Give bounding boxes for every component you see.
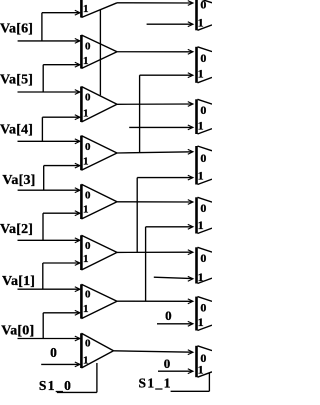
wire Va[2] branch to mux above "1" input xyxy=(43,212,80,214)
wire Va[1] branch to mux above "1" input xyxy=(43,262,80,264)
arrowhead Va[5] into mux above 1 input xyxy=(75,62,80,67)
mux U12 (right column 2:1 mux) xyxy=(197,146,213,185)
wire to U9 "1" input xyxy=(147,23,193,25)
arrowhead Va[2] into left mux 0 input xyxy=(75,238,80,243)
svg-text:S1_1: S1_1 xyxy=(139,376,172,391)
wire output of U4 to U12 "0" input xyxy=(117,152,193,153)
wire constant 0 to U15 "1" input xyxy=(157,323,193,325)
arrowhead into U14 0 input xyxy=(188,250,193,255)
svg-text:Va[2]: Va[2] xyxy=(0,222,33,237)
arrowhead into U9 0 input xyxy=(188,1,193,6)
svg-text:0: 0 xyxy=(85,289,91,301)
mux U4 (left column 2:1 mux) xyxy=(81,136,117,171)
wire Va[3] vertical branch up xyxy=(43,166,45,191)
wire Va[5] vertical branch up xyxy=(42,65,44,92)
wire output of U1 to U9 "0" input xyxy=(117,2,193,4)
wire Va[1] vertical branch up xyxy=(42,263,44,289)
svg-text:0: 0 xyxy=(200,51,206,65)
wire Va[1] horizontal to mux "0" input xyxy=(18,288,80,290)
arrowhead into U11 1 input xyxy=(188,125,193,130)
svg-text:1: 1 xyxy=(83,355,89,367)
svg-text:Va[0]: Va[0] xyxy=(1,323,34,338)
wire S1_0 horizontal xyxy=(57,391,97,393)
wire Va[4] branch to mux above "1" input xyxy=(42,116,79,118)
arrowhead into U15 1 input xyxy=(188,321,193,326)
wire Va[0] branch to mux above "1" input xyxy=(43,312,79,314)
arrowhead into U11 0 input xyxy=(188,102,193,107)
mux U2 (left column 2:1 mux) xyxy=(81,35,117,69)
arrowhead Va[0] into left mux 0 input xyxy=(75,336,80,341)
wire vertical from U4 output down-feed to U10 "1" level xyxy=(139,75,141,152)
wire output of U3 to U11 "0" input xyxy=(117,103,193,105)
arrowhead into U12 0 input xyxy=(188,149,193,154)
wire Va[2] horizontal to mux "0" input xyxy=(18,239,80,241)
svg-text:Va[6]: Va[6] xyxy=(0,21,33,36)
svg-text:Va[4]: Va[4] xyxy=(0,122,33,137)
wire S1_1 vertical up to U16 select xyxy=(208,373,210,392)
mux U14 (right column 2:1 mux) xyxy=(197,247,213,283)
wire constant 0 to U16 "1" input xyxy=(158,370,193,372)
arrowhead Va[5] into left mux 0 input xyxy=(75,90,80,95)
svg-text:1: 1 xyxy=(83,156,89,168)
wire Va[6] branch to mux above "1" input xyxy=(42,12,80,14)
svg-text:1: 1 xyxy=(83,303,89,315)
arrowhead into U14 1 input xyxy=(188,276,193,281)
svg-text:0: 0 xyxy=(200,0,206,12)
arrowhead into U16 1 input xyxy=(188,369,193,374)
svg-text:0: 0 xyxy=(85,190,91,202)
wire S1_0 vertical up to U8 select xyxy=(96,363,98,392)
svg-text:0: 0 xyxy=(85,141,91,153)
svg-text:1: 1 xyxy=(198,315,204,329)
arrowhead constant 0 into U8 1 input xyxy=(75,362,80,367)
svg-text:0: 0 xyxy=(200,103,206,117)
svg-text:1: 1 xyxy=(198,15,204,29)
arrowhead Va[6] into mux above 1 input xyxy=(75,10,80,15)
svg-text:S1_0: S1_0 xyxy=(39,378,72,393)
svg-text:0: 0 xyxy=(85,40,91,52)
svg-text:1: 1 xyxy=(83,253,89,265)
wire Va[3] branch to mux above "1" input xyxy=(44,165,80,167)
arrowhead into U13 0 input xyxy=(188,200,193,205)
arrowhead into U16 0 input xyxy=(188,350,193,355)
svg-text:1: 1 xyxy=(83,3,89,15)
svg-text:0: 0 xyxy=(200,300,206,314)
arrowhead Va[1] into mux above 1 input xyxy=(75,261,80,266)
wire Va[0] horizontal to mux "0" input xyxy=(18,338,80,340)
svg-text:1: 1 xyxy=(83,203,89,215)
arrowhead into U15 0 input xyxy=(188,299,193,304)
wire to U13 "1" input xyxy=(146,226,193,228)
arrowhead Va[4] into mux above 1 input xyxy=(75,115,80,120)
wire to U10 "1" input xyxy=(140,74,193,76)
svg-text:1: 1 xyxy=(83,55,89,67)
wire output of U2 to U10 "0" input xyxy=(117,51,193,53)
wire vertical from U6 output up to U12 "1" level xyxy=(136,178,138,253)
svg-text:0: 0 xyxy=(165,308,172,323)
svg-text:Va[3]: Va[3] xyxy=(2,173,35,188)
mux U13 (right column 2:1 mux) xyxy=(197,197,213,233)
arrowhead Va[6] into left mux 0 input xyxy=(75,39,80,44)
wire output of U7 to U15 "0" input xyxy=(117,300,193,302)
wire Va[6] horizontal to mux "0" input xyxy=(18,40,80,42)
wire Va[5] branch to mux above "1" input xyxy=(43,64,79,66)
svg-text:0: 0 xyxy=(85,337,91,349)
svg-text:0: 0 xyxy=(85,92,91,104)
wire Va[4] horizontal to mux "0" input xyxy=(18,140,80,142)
svg-text:Va[5]: Va[5] xyxy=(0,72,33,87)
wire vertical rail through U2 xyxy=(99,10,101,95)
svg-text:0: 0 xyxy=(50,345,57,360)
svg-text:Va[1]: Va[1] xyxy=(2,274,35,289)
arrowhead into U10 0 input xyxy=(188,49,193,54)
svg-text:1: 1 xyxy=(198,362,204,376)
mux U3 (left column 2:1 mux) xyxy=(81,87,117,123)
wire Va[3] horizontal to mux "0" input xyxy=(18,189,80,191)
svg-text:0: 0 xyxy=(200,201,206,215)
mux U6 (left column 2:1 mux) xyxy=(81,235,117,270)
wire to U11 "1" input xyxy=(129,126,192,128)
svg-text:1: 1 xyxy=(198,66,204,80)
svg-text:0: 0 xyxy=(200,151,206,165)
wire output of U6 to U14 "0" input xyxy=(117,251,193,253)
arrowhead into U13 1 input xyxy=(188,224,193,229)
mux U8 (left column 2:1 mux) xyxy=(81,333,113,368)
mux U10 (right column 2:1 mux) xyxy=(197,47,213,83)
mux U1 (left column 2:1 mux) xyxy=(81,0,117,18)
mux U15 (right column 2:1 mux) xyxy=(197,297,213,331)
wire constant 0 to U8 "1" input xyxy=(41,363,79,365)
svg-text:1: 1 xyxy=(198,218,204,232)
mux U11 (right column 2:1 mux) xyxy=(197,99,213,134)
svg-text:1: 1 xyxy=(198,119,204,133)
wire Va[5] horizontal to mux "0" input xyxy=(18,91,80,93)
svg-text:0: 0 xyxy=(85,240,91,252)
svg-text:1: 1 xyxy=(198,270,204,284)
wire to U14 "1" input xyxy=(154,277,193,278)
svg-text:0: 0 xyxy=(200,251,206,265)
arrowhead Va[3] into left mux 0 input xyxy=(75,188,80,193)
wire to U12 "1" input xyxy=(137,177,192,179)
wire S1_1 horizontal xyxy=(171,390,210,392)
arrowhead into U10 1 input xyxy=(188,73,193,78)
mux U7 (left column 2:1 mux) xyxy=(81,284,117,318)
wire vertical from U7 output up to U13 "1" level xyxy=(145,227,147,301)
svg-text:0: 0 xyxy=(164,356,171,371)
wire output of U8 to U16 "0" input xyxy=(114,351,193,352)
mux U5 (left column 2:1 mux) xyxy=(81,184,117,219)
arrowhead Va[0] into mux above 1 input xyxy=(75,310,80,315)
mux U16 (right column 2:1 mux) xyxy=(197,346,213,377)
wire Va[4] vertical branch up xyxy=(41,117,43,141)
mux U9 (right column 2:1 mux) xyxy=(197,0,213,30)
wire Va[0] vertical branch up xyxy=(42,313,44,339)
svg-text:1: 1 xyxy=(198,169,204,183)
arrowhead Va[1] into left mux 0 input xyxy=(75,287,80,292)
wire Va[2] vertical branch up xyxy=(42,213,44,240)
svg-text:1: 1 xyxy=(83,107,89,119)
arrowhead into U12 1 input xyxy=(188,175,193,180)
arrowhead Va[2] into mux above 1 input xyxy=(75,211,80,216)
arrowhead Va[3] into mux above 1 input xyxy=(75,163,80,168)
arrowhead Va[4] into left mux 0 input xyxy=(75,139,80,144)
wire output of U5 to U13 "0" input xyxy=(117,201,193,203)
wire Va[6] vertical branch up xyxy=(41,13,43,41)
arrowhead into U9 1 input xyxy=(188,22,193,27)
